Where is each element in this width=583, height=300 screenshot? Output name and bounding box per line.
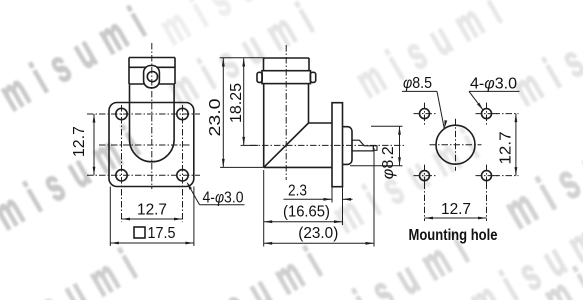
svg-text:Mounting hole: Mounting hole [409,227,498,244]
svg-text:12.7: 12.7 [137,202,167,219]
svg-text:φ8.5: φ8.5 [403,75,432,92]
svg-text:18.25: 18.25 [228,83,245,123]
svg-text:4-φ3.0: 4-φ3.0 [470,76,517,93]
svg-text:(16.65): (16.65) [283,203,330,220]
svg-text:12.7: 12.7 [441,201,471,218]
svg-text:4-φ3.0: 4-φ3.0 [203,190,244,207]
svg-text:2.3: 2.3 [288,183,307,200]
svg-text:(23.0): (23.0) [298,225,338,242]
svg-text:23.0: 23.0 [207,98,224,136]
svg-text:φ8.2: φ8.2 [380,146,397,179]
svg-text:12.7: 12.7 [71,126,88,157]
svg-text:17.5: 17.5 [148,225,176,242]
svg-text:12.7: 12.7 [498,131,515,164]
